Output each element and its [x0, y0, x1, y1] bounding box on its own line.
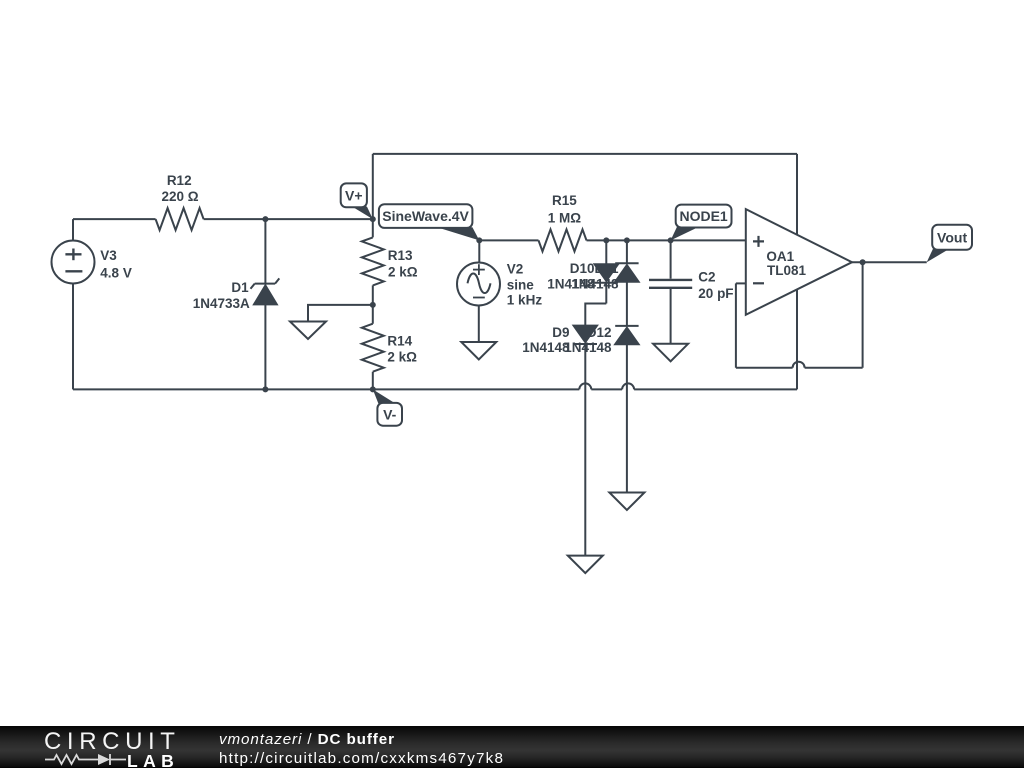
sine rail: R15 to op-amp + input	[587, 239, 746, 241]
svg-text:R14: R14	[387, 333, 412, 348]
node R13/R14 junction	[370, 302, 376, 308]
svg-text:R13: R13	[388, 248, 413, 263]
op-amp - input mark	[753, 282, 764, 284]
svg-text:1N4733A: 1N4733A	[193, 296, 250, 311]
svg-text:V+: V+	[345, 188, 363, 204]
node NODE1/C2	[668, 237, 674, 243]
footer byline text	[219, 730, 504, 769]
node V+	[370, 216, 376, 222]
ground for D9 chain	[568, 556, 603, 574]
wire hop over D9 wire	[579, 383, 591, 389]
ground for C2	[653, 344, 688, 362]
svg-text:2 kΩ: 2 kΩ	[388, 265, 418, 280]
node D1 bottom	[262, 386, 268, 392]
svg-text:SineWave.4V: SineWave.4V	[382, 208, 469, 224]
sine rail: node to R15	[479, 239, 538, 241]
svg-text:D1: D1	[231, 280, 249, 295]
svg-text:TL081: TL081	[767, 263, 807, 278]
node D10 top	[603, 237, 609, 243]
svg-text:220 Ω: 220 Ω	[161, 189, 198, 204]
op-amp + input mark	[753, 236, 764, 247]
voltage source V3	[52, 219, 95, 389]
logo LAB word	[127, 753, 179, 771]
svg-text:20 pF: 20 pF	[698, 286, 733, 301]
flag SineWave.4V	[379, 204, 479, 240]
voltage source V2	[457, 240, 500, 342]
wire op-amp output	[852, 261, 927, 263]
svg-text:4.8 V: 4.8 V	[100, 266, 132, 281]
flag NODE1	[671, 205, 732, 241]
resistor R13	[362, 237, 384, 285]
op-amp U OA1 triangle	[746, 209, 852, 315]
wire bottom rail	[73, 388, 797, 390]
wire feedback right vertical	[862, 262, 864, 368]
flag V+	[341, 183, 373, 219]
logo resistor-diode glyph	[40, 748, 130, 768]
node SineWave	[476, 237, 482, 243]
ground for R13/R14 junction	[290, 305, 373, 339]
svg-text:V-: V-	[383, 406, 397, 422]
svg-text:D11: D11	[594, 261, 619, 276]
svg-text:1N4148: 1N4148	[522, 340, 570, 355]
flag Vout	[927, 225, 972, 262]
svg-text:D9: D9	[552, 325, 569, 340]
svg-text:1 kHz: 1 kHz	[507, 293, 543, 308]
wire jog D10 to D9	[585, 304, 606, 326]
svg-text:V3: V3	[100, 248, 117, 263]
wire R12 to V+ node	[204, 218, 373, 220]
zener diode D1	[251, 219, 280, 389]
wire feedback: - input stub	[736, 282, 746, 284]
node V-	[370, 386, 376, 392]
svg-text:R15: R15	[552, 193, 577, 208]
footer bar	[0, 726, 1024, 768]
svg-text:C2: C2	[698, 269, 715, 284]
resistor R12	[156, 208, 204, 230]
node dot R12/D1 junction	[262, 216, 268, 222]
svg-text:sine: sine	[507, 278, 535, 293]
svg-text:NODE1: NODE1	[679, 208, 727, 224]
svg-text:1N4148: 1N4148	[571, 277, 619, 292]
CircuitLab logo word	[44, 730, 181, 754]
wire top rail left	[73, 218, 156, 220]
resistor R15	[539, 229, 587, 251]
svg-text:D10: D10	[570, 261, 595, 276]
diode D9	[574, 326, 597, 556]
ground for V2	[461, 342, 496, 360]
diode D10	[595, 240, 618, 303]
resistor R14	[362, 324, 384, 372]
svg-text:D12: D12	[587, 325, 612, 340]
svg-text:1N4148: 1N4148	[564, 340, 612, 355]
svg-text:2 kΩ: 2 kΩ	[387, 349, 417, 364]
ground for D12 chain	[609, 493, 644, 511]
capacitor C2	[649, 240, 692, 343]
svg-text:R12: R12	[167, 173, 192, 188]
box right edge (op-amp supply rails)	[796, 154, 798, 390]
box top edge	[373, 153, 797, 155]
svg-text:V2: V2	[507, 261, 524, 276]
node op-amp output	[860, 259, 866, 265]
flag V-	[373, 389, 402, 425]
node D11 top	[624, 237, 630, 243]
box left edge segments / V+ to V- chain	[372, 154, 374, 390]
wire feedback bottom with hop	[736, 367, 863, 369]
svg-text:1 MΩ: 1 MΩ	[548, 210, 582, 225]
diode D11	[615, 240, 638, 326]
svg-text:OA1: OA1	[766, 249, 794, 264]
diode D12	[615, 326, 638, 493]
wire hop over D12 wire	[622, 383, 634, 389]
svg-text:Vout: Vout	[937, 229, 967, 245]
wire feedback left vertical	[735, 283, 737, 367]
wire hop over box right edge	[793, 362, 805, 368]
